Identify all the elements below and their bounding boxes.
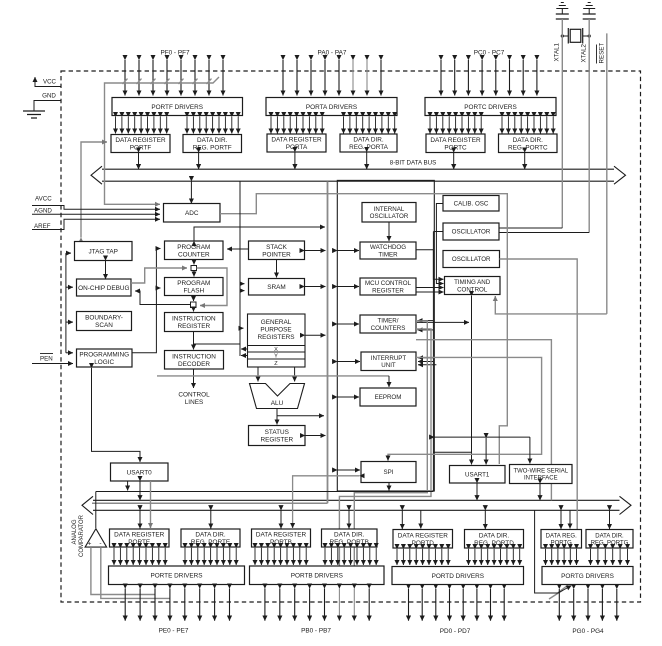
block INTERNAL OSCILLATOR bbox=[362, 203, 416, 223]
wire data register PORTA to bus bbox=[294, 152, 296, 169]
svg-text:LINES: LINES bbox=[185, 399, 203, 406]
label VCC bbox=[43, 79, 57, 86]
svg-text:DATA REGISTER: DATA REGISTER bbox=[256, 532, 307, 539]
wire mcu ctrl to timing control a bbox=[416, 287, 444, 289]
mux node 2 bbox=[191, 302, 197, 308]
svg-text:DATA REGISTER: DATA REGISTER bbox=[430, 137, 481, 144]
pin AGND wire bbox=[32, 213, 160, 215]
svg-text:PROGRAMMING: PROGRAMMING bbox=[79, 352, 129, 359]
svg-text:INSTRUCTION: INSTRUCTION bbox=[172, 316, 216, 323]
svg-text:CONTROL: CONTROL bbox=[457, 286, 488, 293]
capacitor C2 (XTAL2 load cap) with ground bbox=[583, 3, 596, 20]
wire trunk to sram b bbox=[240, 290, 245, 292]
wire scan chain trunk bbox=[65, 253, 67, 353]
svg-text:DATA REGISTER: DATA REGISTER bbox=[271, 137, 322, 144]
block INTERRUPT UNIT bbox=[361, 352, 416, 371]
pins PA0-PA7 bbox=[283, 60, 381, 96]
wire sram to internal bus bbox=[305, 286, 326, 288]
svg-text:DATA DIR.: DATA DIR. bbox=[334, 532, 365, 539]
label PF0 - PF7 bbox=[160, 50, 190, 57]
wires PORTF drivers to data register bbox=[116, 117, 167, 134]
svg-text:ADC: ADC bbox=[185, 210, 199, 217]
block PORTF DRIVERS bbox=[112, 98, 243, 116]
label AGND bbox=[34, 208, 52, 215]
svg-text:PORTD: PORTD bbox=[412, 540, 435, 547]
svg-text:REGISTERS: REGISTERS bbox=[258, 334, 295, 341]
wire JTAG to PORTF data register bbox=[81, 142, 107, 238]
block PROGRAM FLASH bbox=[165, 278, 224, 296]
wires PORTC drivers to data register bbox=[430, 117, 481, 134]
svg-text:JTAG TAP: JTAG TAP bbox=[88, 248, 117, 255]
block PROGRAMMING LOGIC bbox=[77, 349, 133, 367]
block ON-CHIP DEBUG bbox=[77, 279, 132, 296]
svg-text:DATA DIR.: DATA DIR. bbox=[197, 137, 228, 144]
svg-text:TIMER: TIMER bbox=[378, 251, 398, 258]
svg-text:POINTER: POINTER bbox=[262, 251, 291, 258]
op-amp analog comparator bbox=[85, 529, 107, 548]
wire usart1 to serial line bbox=[485, 438, 487, 465]
svg-text:STATUS: STATUS bbox=[265, 429, 289, 436]
wire oscillator1 stub bbox=[433, 231, 443, 233]
wire TOSC gray bbox=[500, 259, 578, 529]
svg-text:CALIB. OSC: CALIB. OSC bbox=[454, 201, 489, 208]
svg-text:AREF: AREF bbox=[34, 223, 51, 230]
svg-text:PORTA DRIVERS: PORTA DRIVERS bbox=[306, 104, 357, 111]
wire gp registers to internal bus bbox=[305, 334, 326, 336]
svg-text:REG. PORTF: REG. PORTF bbox=[193, 145, 232, 152]
svg-text:WATCHDOG: WATCHDOG bbox=[370, 244, 406, 251]
wires PORTE data dir to drivers bbox=[185, 548, 236, 565]
svg-text:PG0 - PG4: PG0 - PG4 bbox=[572, 628, 604, 635]
wire trunk to sram a bbox=[240, 283, 245, 285]
block DATA REGISTER PORTF bbox=[111, 135, 170, 153]
wire on-chip debug to mux1 gray bbox=[131, 268, 187, 283]
svg-text:OSCILLATOR: OSCILLATOR bbox=[452, 229, 491, 236]
wire-hop slashes on PF analog wire bbox=[123, 79, 212, 84]
label CONTROL LINES bbox=[178, 392, 210, 407]
block GENERAL PURPOSE REGISTERS with X Y Z bbox=[248, 314, 306, 367]
svg-text:GND: GND bbox=[42, 93, 56, 100]
pin VCC bbox=[35, 77, 61, 87]
wire bus to data register PORTD bbox=[401, 510, 403, 529]
block PORTB DRIVERS bbox=[250, 566, 385, 585]
svg-text:RESET: RESET bbox=[599, 43, 606, 64]
wires PORTG data reg to drivers bbox=[546, 549, 577, 565]
wire timer output gray 2 to SPI bbox=[388, 357, 542, 460]
svg-text:USART0: USART0 bbox=[127, 469, 153, 476]
wire data dir reg PORTA to bus bbox=[366, 152, 368, 169]
wire XTAL1 to oscillator bbox=[499, 227, 562, 229]
wire calib osc to timing control bbox=[436, 204, 443, 284]
svg-text:REGISTER: REGISTER bbox=[260, 437, 293, 444]
svg-text:EEPROM: EEPROM bbox=[375, 394, 402, 401]
wire timing control to usart1 clock bbox=[471, 296, 473, 465]
capacitor C1 (XTAL1 load cap) with ground bbox=[556, 3, 569, 20]
svg-text:COUNTER: COUNTER bbox=[178, 251, 210, 258]
wire bus trunk to PC/SP bbox=[239, 181, 241, 356]
svg-text:REG. PORTE: REG. PORTE bbox=[191, 539, 230, 546]
svg-text:PORTE DRIVERS: PORTE DRIVERS bbox=[150, 573, 202, 580]
block PORTD DRIVERS bbox=[392, 567, 524, 585]
wire mux1 to program flash bbox=[193, 271, 195, 277]
block SRAM bbox=[249, 279, 305, 296]
svg-text:XTAL1: XTAL1 bbox=[554, 42, 561, 61]
pin AVCC wire bbox=[32, 206, 160, 210]
wire data register PORTF to bus bbox=[138, 153, 140, 170]
svg-text:PORTB: PORTB bbox=[270, 539, 292, 546]
svg-text:TWO-WIRE SERIAL: TWO-WIRE SERIAL bbox=[513, 469, 568, 475]
svg-text:DATA REG.: DATA REG. bbox=[546, 533, 577, 539]
svg-text:OSCILLATOR: OSCILLATOR bbox=[452, 256, 491, 263]
block DATA REGISTER PORTB bbox=[252, 529, 311, 547]
svg-text:ANALOG: ANALOG bbox=[72, 519, 78, 544]
svg-text:FLASH: FLASH bbox=[183, 288, 204, 295]
wire comparator input minus gray bbox=[101, 547, 170, 598]
svg-text:PF0 - PF7: PF0 - PF7 bbox=[160, 50, 190, 57]
label PE0 - PE7 bbox=[159, 628, 189, 635]
svg-text:DATA DIR.: DATA DIR. bbox=[353, 137, 384, 144]
wire trunk to JTAG TAP bbox=[66, 252, 71, 254]
wire trunk to programming logic bbox=[66, 352, 73, 354]
wire mux2 to instruction register bbox=[193, 308, 195, 312]
block DATA DIR. REG. PORTE bbox=[181, 529, 240, 547]
label RESET (with overline) bbox=[597, 43, 606, 64]
wire X register out bbox=[241, 348, 248, 350]
label AVCC bbox=[35, 196, 52, 203]
wire PF analog inputs to ADC bbox=[105, 77, 220, 204]
wire JTAG to on-chip debug bbox=[105, 261, 107, 280]
block DATA DIR. REG. PORTA bbox=[340, 134, 397, 152]
svg-text:AGND: AGND bbox=[34, 208, 52, 215]
ground symbol bbox=[23, 111, 45, 118]
mux node 1 bbox=[191, 266, 197, 271]
svg-text:OSCILLATOR: OSCILLATOR bbox=[370, 213, 409, 220]
wire serial to portg bbox=[535, 510, 558, 593]
svg-text:TIMER/: TIMER/ bbox=[378, 318, 399, 325]
block DATA REG. PORTG bbox=[541, 530, 582, 549]
label 8-BIT DATA BUS bbox=[390, 160, 436, 167]
wire spi to peripheral bus bbox=[337, 469, 360, 471]
wires PORTB data dir to drivers bbox=[325, 548, 376, 565]
wire stack pointer to internal bus bbox=[305, 250, 326, 252]
wire programming logic to usart0 bbox=[92, 368, 141, 462]
wire drop into EEPROM bbox=[388, 376, 390, 387]
wires PORTG data dir to drivers bbox=[591, 549, 628, 565]
wire bus to data register PORTE bbox=[139, 510, 141, 528]
wire TOSC slash bbox=[557, 585, 568, 594]
svg-text:ON-CHIP DEBUG: ON-CHIP DEBUG bbox=[78, 285, 129, 292]
wire timer to timing control riser bbox=[417, 321, 469, 323]
wires PORTD data register to drivers bbox=[397, 549, 448, 565]
svg-text:PORTD DRIVERS: PORTD DRIVERS bbox=[432, 573, 484, 580]
wire program flash to mux2 bbox=[193, 296, 195, 302]
junction XTAL1-crystal bbox=[561, 34, 564, 37]
8-bit data bus (top) bbox=[91, 166, 626, 184]
block CALIB. OSC bbox=[443, 196, 499, 212]
block OSCILLATOR 2 bbox=[443, 251, 500, 268]
svg-text:DATA DIR.: DATA DIR. bbox=[479, 532, 510, 539]
net XTAL1 vertical bbox=[561, 19, 563, 228]
svg-text:BOUNDARY-: BOUNDARY- bbox=[85, 315, 123, 322]
wire comparator riser bbox=[95, 492, 97, 529]
svg-text:STACK: STACK bbox=[266, 244, 288, 251]
svg-text:DATA REGISTER: DATA REGISTER bbox=[114, 532, 165, 539]
svg-text:REG. PORTA: REG. PORTA bbox=[349, 144, 389, 151]
svg-text:PROGRAM: PROGRAM bbox=[177, 244, 210, 251]
svg-text:-: - bbox=[99, 540, 101, 547]
svg-text:USART1: USART1 bbox=[465, 472, 490, 479]
wire IR feedback to PC trunk bbox=[194, 343, 241, 345]
block DATA REGISTER PORTD bbox=[393, 530, 453, 549]
pins PE0-PE7 bbox=[125, 589, 229, 621]
wire gray internal cpu bus vertical bbox=[327, 181, 329, 503]
wire timer to PB gray a bbox=[354, 321, 427, 566]
pin GND wire bbox=[34, 101, 61, 112]
wire riser into timer b bbox=[418, 329, 434, 331]
wire Y register out bbox=[241, 355, 248, 357]
svg-text:UNIT: UNIT bbox=[381, 362, 396, 369]
label PA0 - PA7 bbox=[318, 50, 347, 57]
wire drop to data register PORTD bbox=[420, 510, 422, 528]
block EEPROM bbox=[360, 388, 416, 406]
wire timer to PB gray b bbox=[339, 329, 431, 566]
block DATA DIR. REG. PORTG bbox=[586, 530, 633, 549]
svg-text:PORTG: PORTG bbox=[551, 541, 573, 547]
wire spi to portb bbox=[293, 476, 360, 528]
svg-text:DECODER: DECODER bbox=[178, 361, 210, 368]
block TIMER/COUNTERS bbox=[360, 315, 416, 333]
wire drop to data reg PORTG bbox=[569, 510, 571, 528]
block PROGRAM COUNTER bbox=[165, 241, 224, 260]
wire trunk to gp registers bbox=[240, 327, 244, 329]
wire comparator input plus gray bbox=[91, 547, 155, 594]
label PG0 - PG4 bbox=[572, 628, 604, 635]
wire usart1 to bus bbox=[476, 483, 478, 500]
svg-text:SRAM: SRAM bbox=[267, 284, 285, 291]
wire ADC result gray bbox=[220, 194, 507, 464]
svg-text:PC0 - PC7: PC0 - PC7 bbox=[474, 50, 505, 57]
block USART0 bbox=[111, 463, 169, 481]
svg-text:Z: Z bbox=[274, 361, 278, 367]
wire data dir reg PORTC to bus bbox=[524, 153, 526, 170]
label PC0 - PC7 bbox=[474, 50, 505, 57]
inner peripheral box bbox=[337, 180, 434, 491]
wire programming logic to flash/PC bbox=[132, 249, 161, 353]
svg-text:REG. PORTD: REG. PORTD bbox=[474, 540, 514, 547]
pins PG0-PG4 bbox=[559, 589, 617, 621]
svg-text:PD0 - PD7: PD0 - PD7 bbox=[440, 628, 471, 635]
svg-text:REGISTER: REGISTER bbox=[372, 287, 404, 294]
block JTAG TAP bbox=[75, 242, 133, 261]
svg-text:MCU CONTROL: MCU CONTROL bbox=[365, 280, 412, 287]
wire portg slash black bbox=[558, 586, 572, 594]
wire gray internal cpu bus horizontal bbox=[92, 502, 328, 504]
wire riser comparator segment bbox=[432, 250, 434, 492]
wire twi to bus bbox=[539, 484, 541, 501]
wire instruction register to decoder bbox=[193, 332, 195, 350]
pins PD0-PD7 bbox=[409, 589, 505, 621]
svg-text:REG. PORTC: REG. PORTC bbox=[508, 144, 548, 151]
svg-text:PORTA: PORTA bbox=[286, 144, 308, 151]
svg-text:+: + bbox=[88, 541, 92, 548]
block BOUNDARY-SCAN bbox=[77, 312, 132, 331]
wire mcu control reg to peripheral bus bbox=[337, 286, 359, 288]
wire usart0 drop to comparator line bbox=[127, 481, 129, 491]
svg-text:CONTROL: CONTROL bbox=[178, 392, 210, 399]
wire gp registers to ALU a bbox=[257, 367, 259, 382]
8-bit data bus (bottom) bbox=[82, 496, 631, 514]
wires PORTB data register to drivers bbox=[255, 548, 306, 565]
wire watchdog to peripheral bus bbox=[337, 250, 359, 252]
svg-text:DATA REGISTER: DATA REGISTER bbox=[398, 532, 449, 539]
wire data dir reg PORTF to bus bbox=[198, 153, 200, 170]
svg-text:PA0 - PA7: PA0 - PA7 bbox=[318, 50, 347, 57]
svg-text:PB0 - PB7: PB0 - PB7 bbox=[301, 628, 331, 635]
wire data register PORTC to bus bbox=[453, 153, 455, 170]
wire bus to data reg PORTG bbox=[560, 510, 562, 529]
wire trunk to on-chip debug bbox=[66, 286, 73, 288]
block SPI bbox=[361, 462, 416, 483]
svg-text:PORTG DRIVERS: PORTG DRIVERS bbox=[561, 573, 614, 580]
svg-text:X: X bbox=[274, 347, 278, 353]
wire bus to data dir reg PORTE bbox=[210, 510, 212, 528]
label AREF bbox=[34, 223, 51, 230]
svg-text:SCAN: SCAN bbox=[95, 322, 113, 329]
crystal Y1 bbox=[562, 28, 589, 44]
wires PORTA drivers to data register bbox=[271, 117, 322, 134]
svg-text:PORTC: PORTC bbox=[444, 144, 467, 151]
block PORTE DRIVERS bbox=[109, 566, 245, 585]
wire stack pointer to sram bbox=[276, 260, 278, 278]
block DATA DIR. REG. PORTB bbox=[322, 529, 378, 547]
svg-text:AVCC: AVCC bbox=[35, 196, 52, 203]
wire watchdog to timing control bbox=[416, 249, 433, 251]
wire mux2 to on-chip debug bbox=[135, 291, 191, 305]
svg-text:INTERFACE: INTERFACE bbox=[524, 476, 558, 482]
svg-text:Y: Y bbox=[274, 354, 278, 360]
svg-text:PORTF DRIVERS: PORTF DRIVERS bbox=[151, 104, 203, 111]
wire bus to data dir reg PORTB bbox=[348, 510, 350, 528]
block ALU bbox=[250, 384, 305, 409]
wires PORTC drivers to data direction reg bbox=[502, 117, 553, 134]
wire serial to interrupt bbox=[434, 436, 530, 438]
wire stub to program flash bbox=[156, 287, 160, 289]
wires PORTA drivers to data direction reg bbox=[344, 117, 395, 134]
svg-text:PORTF: PORTF bbox=[130, 145, 152, 152]
svg-text:PORTC DRIVERS: PORTC DRIVERS bbox=[464, 104, 516, 111]
wire riser into interrupt c bbox=[418, 364, 436, 366]
svg-text:INTERNAL: INTERNAL bbox=[374, 206, 405, 213]
svg-text:TIMING AND: TIMING AND bbox=[454, 279, 491, 286]
pin AREF wire bbox=[32, 219, 160, 229]
wire usart0 to bus bbox=[139, 481, 141, 500]
block TIMING AND CONTROL bbox=[445, 277, 501, 295]
wire usart0 gray to PORTE bbox=[150, 481, 152, 528]
wire programming logic gray bbox=[157, 375, 389, 377]
block DATA DIR. REG. PORTC bbox=[499, 134, 558, 153]
svg-text:8-BIT DATA BUS: 8-BIT DATA BUS bbox=[390, 160, 436, 167]
wire TOSC gray slash bbox=[549, 590, 563, 599]
block DATA REGISTER PORTC bbox=[426, 134, 485, 153]
block STATUS REGISTER bbox=[249, 426, 306, 446]
wire riser into interrupt b bbox=[418, 361, 433, 363]
pins PB0-PB7 bbox=[265, 589, 369, 621]
wire riser to timing control bbox=[433, 232, 443, 280]
label PD0 - PD7 bbox=[440, 628, 471, 635]
block DATA DIR. REG. PORTF bbox=[183, 135, 242, 153]
block MCU CONTROL REGISTER bbox=[360, 278, 416, 295]
wire bus to data register PORTB bbox=[280, 510, 282, 528]
svg-text:REG. PORTB: REG. PORTB bbox=[330, 539, 369, 546]
wires PORTE data register to drivers bbox=[114, 548, 165, 565]
svg-text:PURPOSE: PURPOSE bbox=[260, 327, 291, 334]
svg-text:COMPARATOR: COMPARATOR bbox=[79, 514, 85, 557]
svg-text:DATA DIR.: DATA DIR. bbox=[513, 137, 544, 144]
pins PF0-PF7 bbox=[125, 60, 223, 96]
wire mcu ctrl to timing control b bbox=[416, 291, 444, 293]
block DATA REGISTER PORTA bbox=[267, 134, 326, 152]
wire PC to internal bus bbox=[194, 227, 325, 241]
wire bus to data dir reg PORTD bbox=[484, 510, 486, 529]
label PEN (with overline) bbox=[40, 354, 53, 363]
label GND bbox=[42, 93, 56, 100]
svg-text:REGISTER: REGISTER bbox=[177, 323, 210, 330]
wire timer output gray 1 bbox=[416, 340, 551, 501]
wire ALU to status register bbox=[276, 409, 278, 425]
wire internal oscillator to watchdog bbox=[388, 222, 390, 241]
pin PEN wire bbox=[32, 363, 73, 365]
svg-text:DATA DIR.: DATA DIR. bbox=[595, 533, 624, 539]
svg-text:SPI: SPI bbox=[384, 469, 394, 476]
wire ADC to data bus bbox=[190, 181, 192, 203]
svg-text:ALU: ALU bbox=[271, 400, 284, 407]
block WATCHDOG TIMER bbox=[360, 242, 416, 259]
wire spi drop bbox=[388, 483, 390, 491]
wire clock stub horizontal bbox=[434, 451, 472, 453]
wire gp registers to ALU b bbox=[294, 367, 296, 382]
svg-text:DATA REGISTER: DATA REGISTER bbox=[115, 137, 166, 144]
net XTAL2 vertical bbox=[588, 19, 590, 233]
wire SPI top arrowhead bbox=[387, 456, 389, 461]
wire trunk to boundary-scan bbox=[66, 321, 73, 323]
block DATA DIR. REG. PORTD bbox=[465, 530, 524, 549]
svg-text:REG. PORTG: REG. PORTG bbox=[591, 541, 629, 547]
wire ALU result to internal bus bbox=[277, 415, 324, 417]
wire decoder to control lines bbox=[193, 369, 195, 388]
block PORTA DRIVERS bbox=[266, 98, 397, 116]
wire riser into interrupt a bbox=[418, 357, 433, 359]
wire drop to two-wire interface bbox=[529, 437, 531, 463]
wire trunk to program counter bbox=[227, 248, 249, 250]
wires PORTD data dir to drivers bbox=[469, 549, 520, 565]
chip boundary (dashed border) bbox=[61, 71, 641, 602]
wire eeprom to peripheral bus bbox=[337, 396, 359, 398]
svg-text:PORTE: PORTE bbox=[128, 539, 150, 546]
pins PC0-PC7 bbox=[441, 60, 537, 96]
wire timer/counters to peripheral bus bbox=[337, 323, 359, 325]
net RESET vertical bbox=[606, 33, 608, 314]
block INSTRUCTION REGISTER bbox=[165, 313, 224, 332]
wire interrupt unit to peripheral bus bbox=[337, 361, 360, 363]
svg-text:PROGRAM: PROGRAM bbox=[177, 280, 210, 287]
wires PORTF drivers to data direction reg bbox=[187, 117, 238, 134]
wire PC to mux1 bbox=[193, 260, 195, 265]
block STACK POINTER bbox=[249, 241, 305, 260]
label XTAL1 bbox=[554, 42, 561, 61]
block OSCILLATOR 1 bbox=[443, 223, 499, 240]
svg-text:GENERAL: GENERAL bbox=[261, 319, 292, 326]
block PORTC DRIVERS bbox=[425, 98, 556, 116]
